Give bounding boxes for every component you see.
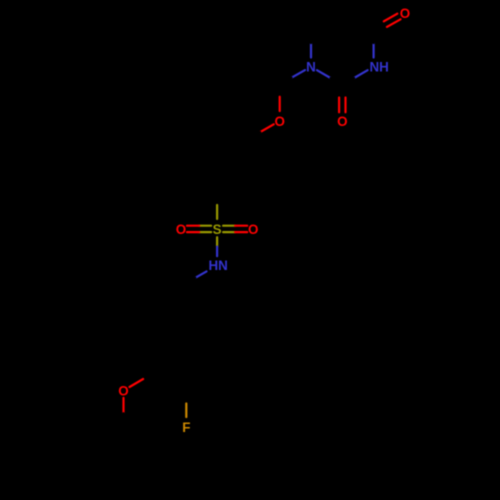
bond aryl B6-B1 [186, 130, 202, 139]
double bond C5=C6 (uracil ring) [325, 10, 341, 19]
bond aryl D1-D2 [186, 318, 202, 327]
svg-text:S: S [213, 222, 222, 237]
svg-text:O: O [248, 222, 258, 237]
bond aryl D6-D1 [155, 327, 171, 336]
bond aryl B1-B2 [217, 121, 233, 130]
bond aryl D3-D4 [202, 372, 218, 381]
bond CH2-O ether [279, 84, 281, 96]
bond aryl-F bond [185, 390, 187, 404]
bond N1-CH2 linker [292, 70, 306, 78]
bond aryl D2-D3 [217, 336, 219, 354]
svg-text:HN: HN [209, 258, 228, 273]
bond N1-C2 (uracil ring) [317, 70, 331, 78]
svg-text:O: O [118, 384, 128, 399]
double bond S=O right [223, 231, 235, 233]
svg-text:O: O [337, 114, 347, 129]
double bond C2=O2 carbonyl [338, 85, 340, 98]
svg-text:N: N [306, 60, 316, 75]
svg-text:NH: NH [370, 60, 389, 75]
svg-text:O: O [274, 114, 284, 129]
svg-text:O: O [176, 222, 186, 237]
bond O-CH3 methoxy [122, 398, 124, 413]
svg-text:F: F [182, 420, 190, 435]
bond N3-C2 (uracil ring) [354, 70, 368, 78]
double bond S=O left [199, 225, 211, 227]
bond aryl B5-B6 [185, 157, 187, 175]
svg-text:O: O [400, 6, 410, 21]
bond aryl B2-B3 [247, 139, 249, 157]
bond aryl-O methoxy [143, 372, 155, 379]
bond aryl D5-D6 [154, 354, 156, 372]
bond C4-C5 (uracil ring) [358, 22, 374, 31]
bond O-aryl ether [260, 124, 274, 132]
bond CH2-aryl bond [185, 283, 188, 300]
bond S-N sulfonamide [216, 237, 218, 246]
bond aryl B3-B4 [233, 175, 249, 184]
bond aryl D4-D5 [171, 381, 187, 390]
bond aryl B4-B5 [201, 184, 217, 193]
bond aryl-S bond [216, 193, 218, 205]
bond N3-C4 (uracil ring) [373, 43, 375, 58]
double bond C4=O4 carbonyl [375, 27, 387, 34]
bond N-CH2 benzyl [195, 271, 206, 277]
bond N1-C6 (uracil ring) [310, 43, 312, 58]
